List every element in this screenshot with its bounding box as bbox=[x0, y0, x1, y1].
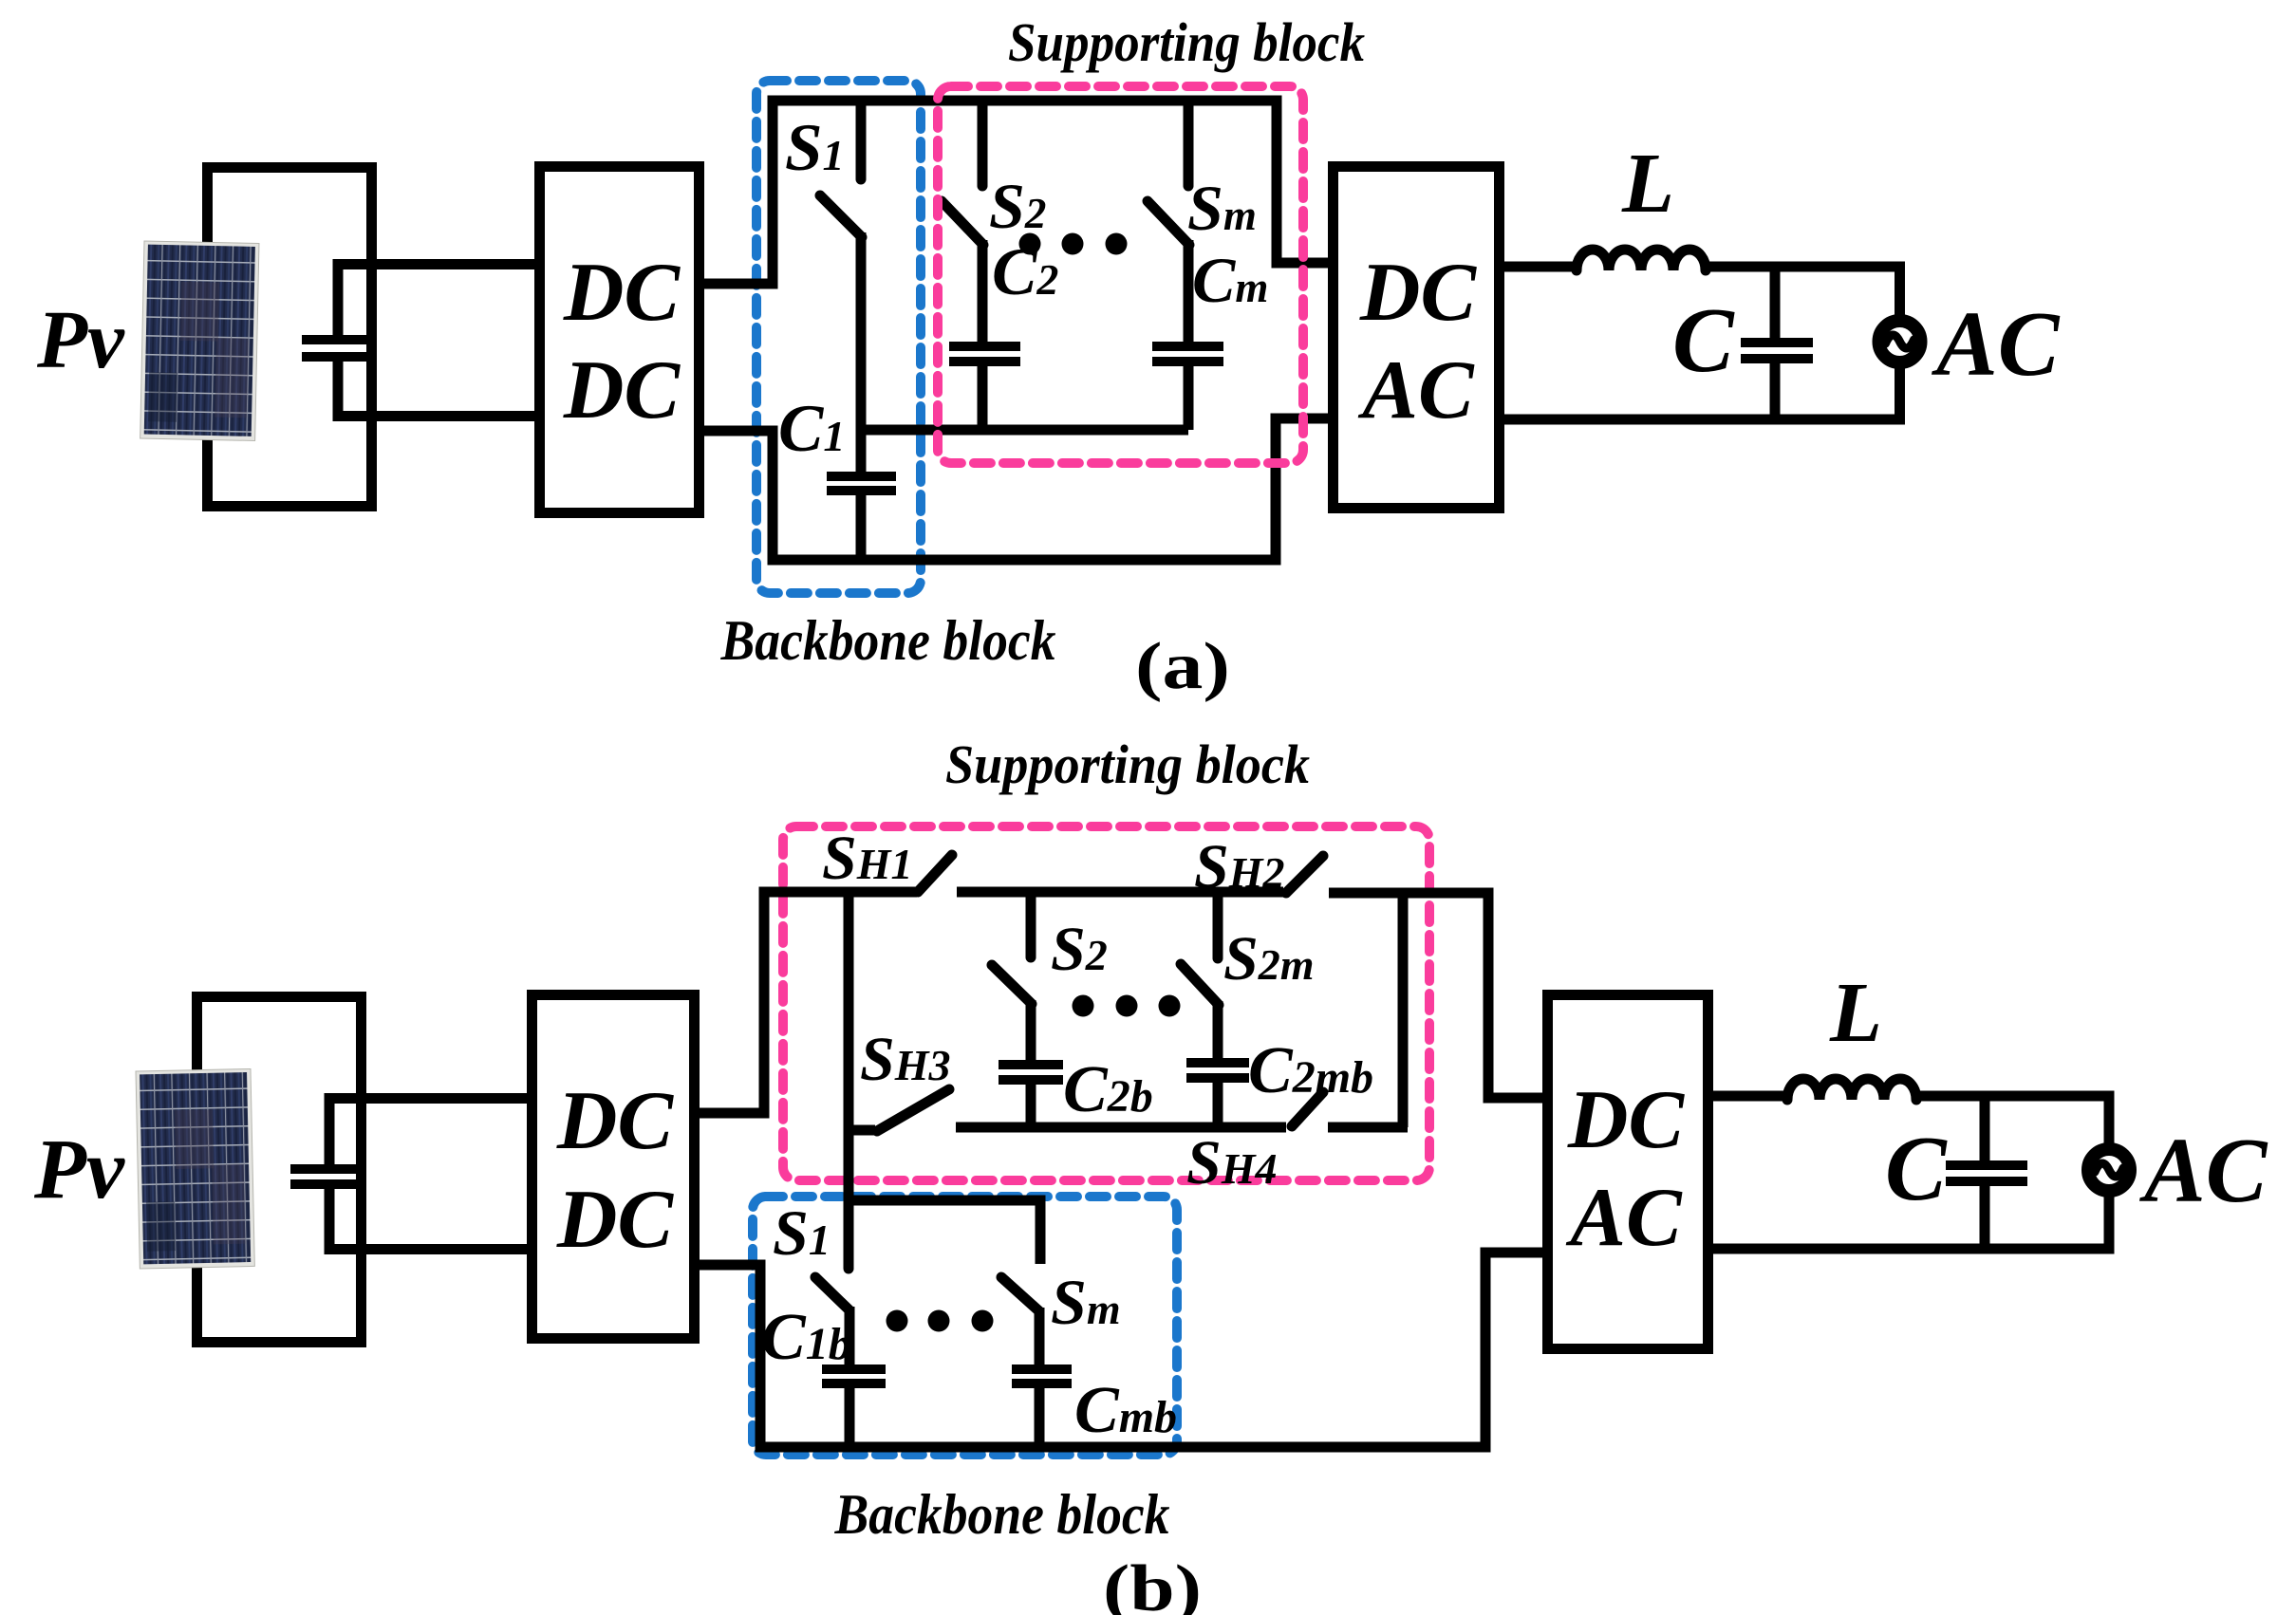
svg-text:Supporting block: Supporting block bbox=[945, 733, 1310, 795]
svg-text:DC: DC bbox=[563, 344, 681, 436]
AC source (a) bbox=[1879, 321, 1921, 362]
svg-text:S1: S1 bbox=[773, 1197, 831, 1269]
svg-text:(a): (a) bbox=[1135, 630, 1230, 703]
wire: bottom return DC/AC to AC source (b) bbox=[1708, 1196, 2115, 1249]
svg-text:Pv: Pv bbox=[36, 293, 125, 385]
capacitor Cmb (b) bbox=[1012, 1369, 1072, 1383]
svg-text:C2b: C2b bbox=[1063, 1053, 1153, 1126]
svg-text:Cm: Cm bbox=[1192, 244, 1268, 316]
svg-text:L: L bbox=[1621, 137, 1674, 231]
wire: inductor to AC source (a) bbox=[1704, 267, 1905, 317]
switch S1 (b) bbox=[815, 1277, 849, 1310]
switch Sm (b) bbox=[1001, 1277, 1039, 1311]
svg-text:AC: AC bbox=[2138, 1120, 2268, 1221]
svg-text:S1: S1 bbox=[785, 111, 845, 185]
capacitor Cm (a) bbox=[1152, 346, 1223, 362]
svg-text:C: C bbox=[1672, 289, 1735, 391]
svg-text:(b): (b) bbox=[1103, 1552, 1202, 1615]
capacitor C1 (a) bbox=[827, 476, 896, 491]
svg-text:C1: C1 bbox=[778, 392, 845, 466]
wire: SH2 to DC/AC (b) bbox=[1329, 893, 1547, 1098]
wire: DC/DC bottom output, bottom rail to DC/AC (a) bbox=[704, 418, 1333, 560]
svg-text:S2m: S2m bbox=[1223, 924, 1315, 993]
wire: backbone top link to Sm (b) bbox=[849, 1200, 1040, 1264]
svg-text:Sm: Sm bbox=[1187, 172, 1257, 244]
supporting block boundary (b) bbox=[783, 826, 1429, 1180]
switch SH4 (b) bbox=[1292, 1092, 1323, 1126]
capacitor C2mb (b) bbox=[1186, 1063, 1249, 1078]
svg-text:SH1: SH1 bbox=[822, 824, 913, 893]
svg-text:Cmb: Cmb bbox=[1074, 1374, 1177, 1447]
ellipsis dots supporting (b) bbox=[1073, 995, 1094, 1017]
dc-dc converter block (a) bbox=[540, 167, 700, 513]
svg-text:Backbone block: Backbone block bbox=[720, 609, 1056, 672]
capacitor C1b (b) bbox=[822, 1369, 886, 1383]
supporting block boundary (a) bbox=[938, 86, 1303, 463]
backbone block boundary (b) bbox=[753, 1197, 1177, 1455]
wire loop from capacitor to DC/DC (b) bbox=[329, 1099, 527, 1250]
ellipsis dots (a) bbox=[1019, 233, 1041, 255]
wire: supporting inner bottom rail (b) bbox=[956, 1123, 1286, 1133]
capacitor Cin (a) bbox=[302, 340, 371, 357]
wire: inductor to AC source (b) bbox=[1914, 1096, 2115, 1145]
wire: DC/DC top output up to supporting rail (b) bbox=[700, 892, 917, 1113]
switch SH1 (b) bbox=[918, 855, 952, 892]
switch SH2 (b) bbox=[1286, 856, 1323, 893]
backbone block boundary (a) bbox=[756, 81, 921, 593]
switch S2 (b) bbox=[1026, 892, 1036, 957]
switch Sm (a) bbox=[1184, 102, 1194, 186]
svg-text:SH2: SH2 bbox=[1194, 832, 1285, 901]
switch S1 (a) bbox=[856, 102, 867, 179]
wire: DC/AC to inductor (b) bbox=[1708, 1091, 1789, 1102]
switch S2m (b) bbox=[1213, 892, 1223, 958]
inductor L (a) bbox=[1577, 250, 1706, 270]
wire: DC/DC bottom output and backbone bottom rail to DC/AC (b) bbox=[700, 1253, 1547, 1447]
svg-text:C2mb: C2mb bbox=[1248, 1034, 1373, 1107]
wire: bottom return DC/AC to AC source (a) bbox=[1499, 367, 1905, 419]
svg-text:DC: DC bbox=[1567, 1074, 1686, 1166]
wire: DC/DC top output to top rail to DC/AC (a) bbox=[704, 101, 1333, 284]
wire: mid node to supporting capacitors (a) bbox=[856, 425, 1188, 436]
wire: SH1 to SH2 (b) bbox=[957, 887, 1283, 898]
AC source (b) bbox=[2088, 1149, 2130, 1191]
svg-text:SH3: SH3 bbox=[860, 1025, 951, 1094]
dc-dc converter block (b) bbox=[532, 995, 695, 1339]
svg-text:S2: S2 bbox=[989, 170, 1046, 242]
svg-text:L: L bbox=[1829, 966, 1882, 1060]
switch SH3 (b) bbox=[849, 1125, 875, 1136]
switch S2 (a) bbox=[978, 102, 988, 186]
svg-text:Sm: Sm bbox=[1051, 1266, 1121, 1338]
PV module (figure b) bbox=[136, 1068, 254, 1268]
dc-ac inverter block (b) bbox=[1548, 995, 1708, 1349]
capacitor C2 (a) bbox=[949, 346, 1020, 362]
svg-text:AC: AC bbox=[1357, 344, 1475, 436]
wire loop from PV to input capacitor (b) bbox=[197, 997, 362, 1343]
svg-text:AC: AC bbox=[1565, 1172, 1683, 1264]
svg-text:Backbone block: Backbone block bbox=[834, 1483, 1170, 1546]
svg-text:C1b: C1b bbox=[761, 1301, 851, 1374]
capacitor C2b (b) bbox=[999, 1065, 1063, 1080]
svg-text:DC: DC bbox=[563, 247, 681, 339]
ellipsis dots backbone (b) bbox=[887, 1310, 908, 1332]
capacitor Cin (b) bbox=[290, 1169, 363, 1184]
svg-text:AC: AC bbox=[1931, 293, 2061, 395]
inductor L (b) bbox=[1787, 1079, 1916, 1100]
svg-text:Supporting block: Supporting block bbox=[1008, 11, 1365, 73]
svg-text:Pv: Pv bbox=[33, 1123, 125, 1216]
svg-text:C: C bbox=[1885, 1118, 1948, 1219]
wire: left branch vertical (b) bbox=[844, 892, 854, 1269]
wire loop from PV to input capacitor (a) bbox=[208, 168, 372, 507]
wire: DC/AC to inductor (a) bbox=[1499, 262, 1578, 272]
PV module (figure a) bbox=[140, 241, 259, 440]
svg-text:S2: S2 bbox=[1051, 915, 1108, 984]
svg-text:SH4: SH4 bbox=[1186, 1128, 1278, 1197]
wire loop from capacitor to DC/DC (a) bbox=[338, 265, 534, 417]
dc-ac inverter block (a) bbox=[1334, 167, 1500, 509]
svg-text:DC: DC bbox=[1359, 247, 1478, 339]
capacitor C output branch (a) bbox=[1770, 267, 1781, 419]
svg-text:DC: DC bbox=[556, 1174, 675, 1266]
svg-text:DC: DC bbox=[556, 1075, 675, 1167]
capacitor C output branch (b) bbox=[1980, 1096, 1990, 1249]
